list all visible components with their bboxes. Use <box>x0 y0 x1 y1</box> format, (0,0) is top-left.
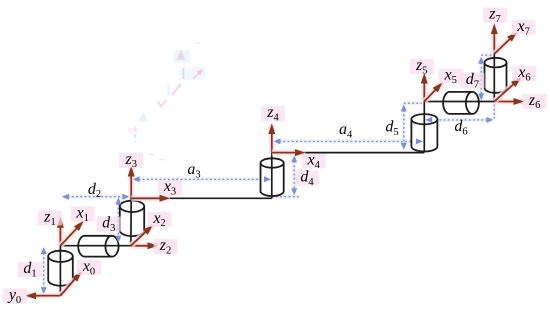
axis x2 <box>131 225 153 246</box>
axis z5 <box>421 73 427 102</box>
label x6 <box>512 66 536 81</box>
axis y0 <box>26 293 61 299</box>
link line corner-F4 <box>271 153 273 199</box>
axis x1 <box>60 221 83 246</box>
d5 arrows <box>401 104 407 111</box>
d2 arrows <box>62 194 69 200</box>
label d1 <box>18 262 42 277</box>
label x7 <box>512 20 536 35</box>
label x4 <box>302 154 326 169</box>
label x2 <box>148 212 172 227</box>
a4 arrows <box>273 138 280 144</box>
label x1 <box>71 207 95 222</box>
ghost marks (faint artifacts upper-left) <box>174 50 190 63</box>
axis z4 <box>269 124 275 153</box>
dimension d7 top extension <box>481 53 492 57</box>
link line F4-corner5 <box>272 152 425 154</box>
d6 arrows <box>425 117 432 123</box>
axis x3 <box>131 195 170 201</box>
joint cylinder 1 <box>48 256 73 285</box>
label x5 <box>439 69 463 84</box>
axis x5 <box>424 83 442 102</box>
dimension d5 top extension <box>404 101 422 105</box>
dimension a3 line <box>134 177 269 181</box>
joint cylinder 4 <box>261 163 284 196</box>
link line F5-F6 <box>424 101 494 103</box>
label z1 <box>38 211 62 226</box>
link line F1-F2 <box>60 245 130 247</box>
axis x0 <box>60 272 81 296</box>
d4 arrows <box>291 155 297 162</box>
label z7 <box>483 8 507 23</box>
d1 arrows <box>41 247 47 254</box>
dimension d6 line <box>427 118 492 122</box>
dimension a4 line <box>275 139 421 143</box>
joint cylinder 6 (horizontal) <box>443 92 472 114</box>
link line corner5-F5 <box>423 102 425 153</box>
label x0 <box>77 260 101 275</box>
label z5 <box>410 59 434 74</box>
label z4 <box>261 106 285 121</box>
dimension d2 line <box>64 195 129 199</box>
label y0 <box>3 289 27 304</box>
axis x4 <box>272 150 306 156</box>
dimension d4 line <box>292 157 296 194</box>
axis x6 <box>494 78 521 102</box>
dimension d4 bottom extension <box>272 195 300 199</box>
d3 arrows <box>115 197 121 204</box>
label z3 <box>119 153 143 168</box>
link line F2-F3 <box>130 198 132 245</box>
dimension d5 line <box>402 106 406 148</box>
label d3 <box>97 217 121 232</box>
label d4 <box>295 171 319 186</box>
joint cylinder 7 <box>485 63 507 93</box>
axis x7 <box>494 32 517 54</box>
label z2 <box>154 239 178 254</box>
axis z6 <box>494 99 524 105</box>
joint cylinder 3 <box>120 206 144 236</box>
dimension d7 line <box>479 58 483 99</box>
label d7 <box>460 73 484 88</box>
axis z2 <box>131 243 158 249</box>
d7 arrows <box>478 57 484 64</box>
joint cylinder 5 <box>411 119 437 151</box>
dimension d3 line <box>116 199 120 241</box>
label z6 <box>523 94 547 109</box>
link line F6-F7 <box>493 54 495 102</box>
label x3 <box>158 180 182 195</box>
a3 arrows <box>133 176 140 182</box>
joint cylinder 2 (horizontal) <box>78 236 112 257</box>
link line F3-F4corner <box>131 197 272 199</box>
axis z3 <box>128 166 134 198</box>
dimension d6 right extension <box>492 105 496 119</box>
dimension d1 line <box>42 249 46 293</box>
axis z7 <box>491 24 497 55</box>
link line F0-F1 <box>59 246 61 296</box>
axis z1 <box>57 217 63 245</box>
